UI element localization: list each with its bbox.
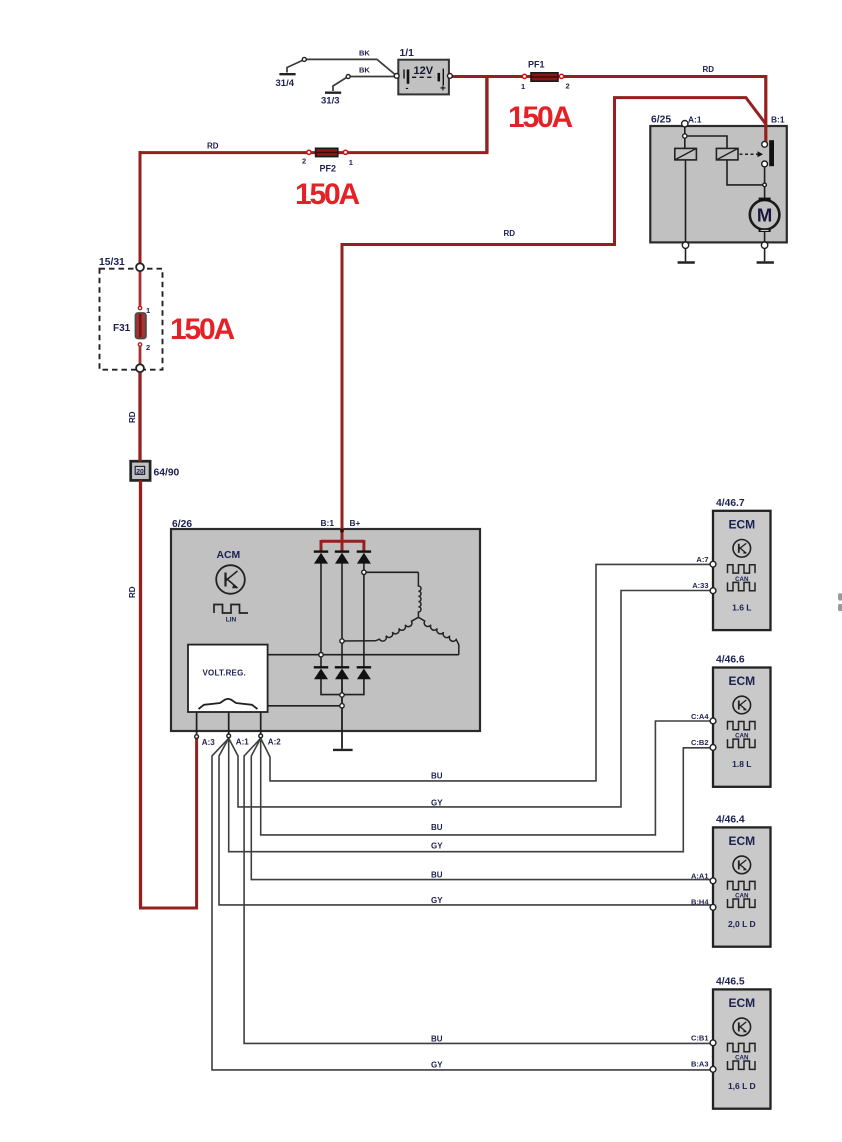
svg-text:31/4: 31/4	[276, 78, 295, 89]
svg-text:4/46.5: 4/46.5	[716, 977, 745, 988]
svg-text:M: M	[757, 205, 772, 226]
svg-text:1/1: 1/1	[400, 48, 415, 59]
svg-text:B:A3: B:A3	[691, 1060, 709, 1069]
svg-text:B:1: B:1	[771, 115, 785, 125]
svg-text:1.6 L: 1.6 L	[732, 602, 751, 612]
svg-text:ECM: ECM	[728, 996, 755, 1010]
svg-text:A:A1: A:A1	[691, 872, 709, 881]
svg-text:BK: BK	[359, 66, 370, 75]
svg-text:4/46.7: 4/46.7	[716, 498, 745, 509]
svg-text:1: 1	[146, 306, 150, 315]
svg-text:A:1: A:1	[688, 115, 702, 125]
svg-text:A:3: A:3	[202, 738, 215, 747]
svg-text:150A: 150A	[170, 313, 234, 346]
svg-text:BU: BU	[431, 823, 443, 832]
svg-text:12V: 12V	[414, 65, 434, 77]
svg-text:PF2: PF2	[320, 164, 337, 174]
svg-text:BU: BU	[431, 1035, 443, 1044]
svg-text:2,0 L D: 2,0 L D	[728, 919, 756, 929]
svg-text:ACM: ACM	[217, 550, 241, 561]
svg-text:F31: F31	[113, 323, 131, 334]
svg-text:1.8 L: 1.8 L	[732, 759, 751, 769]
svg-text:1: 1	[349, 158, 353, 167]
svg-text:2: 2	[302, 157, 306, 166]
svg-text:31/3: 31/3	[321, 96, 340, 107]
svg-text:BK: BK	[359, 49, 370, 58]
svg-text:C:B2: C:B2	[691, 738, 709, 747]
svg-text:ECM: ECM	[728, 674, 755, 688]
svg-text:1,6 L D: 1,6 L D	[728, 1081, 756, 1091]
svg-text:150A: 150A	[295, 178, 359, 211]
svg-text:ECM: ECM	[728, 834, 755, 848]
svg-text:4/46.4: 4/46.4	[716, 815, 745, 826]
svg-text:A:33: A:33	[692, 581, 708, 590]
svg-text:GY: GY	[431, 842, 443, 851]
svg-text:2: 2	[146, 343, 150, 352]
svg-text:BU: BU	[431, 772, 443, 781]
svg-text:C:A4: C:A4	[691, 712, 709, 721]
svg-text:64/90: 64/90	[154, 468, 180, 479]
svg-text:+: +	[440, 84, 446, 95]
svg-text:RD: RD	[703, 65, 715, 74]
svg-text:A:1: A:1	[236, 738, 249, 747]
svg-text:20: 20	[136, 468, 144, 475]
svg-text:GY: GY	[431, 896, 443, 905]
svg-text:150A: 150A	[508, 101, 572, 134]
svg-text:A:7: A:7	[696, 555, 708, 564]
svg-text:4/46.6: 4/46.6	[716, 655, 745, 666]
svg-text:RD: RD	[128, 586, 137, 598]
svg-text:ECM: ECM	[728, 517, 755, 531]
svg-text:VOLT.REG.: VOLT.REG.	[203, 669, 246, 678]
svg-text:RD: RD	[128, 411, 137, 423]
svg-text:GY: GY	[431, 1061, 443, 1070]
svg-text:15/31: 15/31	[99, 257, 125, 268]
svg-text:6/25: 6/25	[651, 115, 671, 126]
svg-text:BU: BU	[431, 871, 443, 880]
svg-text:GY: GY	[431, 799, 443, 808]
svg-text:6/26: 6/26	[172, 519, 192, 530]
svg-text:-: -	[406, 83, 409, 93]
svg-text:1: 1	[521, 82, 525, 91]
svg-text:RD: RD	[207, 142, 219, 151]
svg-text:B+: B+	[350, 518, 361, 528]
svg-text:LIN: LIN	[226, 617, 237, 624]
svg-text:A:2: A:2	[268, 738, 281, 747]
svg-text:RD: RD	[504, 229, 516, 238]
svg-text:C:B1: C:B1	[691, 1034, 709, 1043]
svg-text:B:1: B:1	[321, 518, 335, 528]
svg-text:B:H4: B:H4	[691, 898, 709, 907]
svg-text:2: 2	[566, 82, 570, 91]
svg-text:PF1: PF1	[528, 60, 545, 70]
